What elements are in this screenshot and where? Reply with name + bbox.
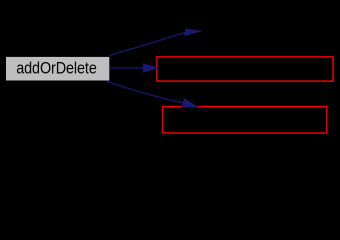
svg-text:addOrDelete: addOrDelete <box>16 60 96 78</box>
node box: middle callee (red truncated node) <box>157 57 333 81</box>
wire: bottom edge shaft <box>106 81 182 103</box>
wire: top edge shaft to hidden node <box>109 32 185 55</box>
arrowhead: top edge <box>185 29 202 36</box>
node addOrDelete (current function, grey box) <box>6 57 109 81</box>
arrowhead: middle edge <box>143 64 159 73</box>
node box: bottom callee (red truncated node) <box>163 107 327 133</box>
wire: middle edge shaft <box>109 67 144 69</box>
arrowhead: bottom edge <box>182 99 198 108</box>
